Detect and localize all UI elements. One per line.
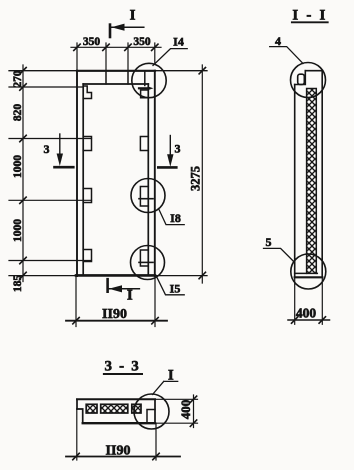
section mark 3 right (169, 136, 171, 164)
svg-text:400: 400 (178, 400, 193, 420)
leader label I (153, 381, 178, 394)
leader label 4 (270, 47, 303, 64)
svg-text:350: 350 (133, 36, 151, 48)
I-I bottom rebate (295, 272, 318, 274)
svg-text:1000: 1000 (12, 155, 24, 178)
section mark I bottom (106, 279, 109, 292)
I-I right edge (321, 71, 323, 278)
slash ticks left chain (20, 68, 26, 279)
detail circle 15 (131, 246, 165, 280)
leader and label 14 (153, 49, 187, 66)
I-I top step (295, 71, 306, 85)
slot in detail 4 (298, 74, 305, 84)
svg-text:3 - 3: 3 - 3 (105, 359, 141, 375)
top rail divider left (105, 71, 107, 84)
right notch 2 (140, 137, 148, 151)
leader and label 15 (157, 278, 184, 295)
I-I bottom edge (295, 276, 323, 278)
top rail bottom line (83, 83, 148, 85)
svg-text:5: 5 (266, 235, 272, 249)
svg-text:820: 820 (12, 104, 24, 122)
400 dim I-I (294, 277, 296, 324)
svg-text:1000: 1000 (12, 219, 24, 242)
ext line x155 (154, 43, 156, 64)
detail circle 5 (291, 254, 326, 289)
title 3-3 underline (104, 373, 142, 375)
3-3 bottom edge (83, 422, 155, 424)
panel bottom edge (extends as extension line both sides) (9, 275, 207, 277)
ext line y87 (9, 86, 83, 88)
slash ticks top dim (74, 44, 158, 50)
3-3 hatch box 3 (132, 404, 141, 413)
svg-text:I5: I5 (170, 282, 181, 296)
3-3 right edge (154, 399, 156, 423)
3-3 left edge (76, 399, 78, 409)
inner left rib line (82, 84, 84, 275)
section mark 3 left (59, 134, 61, 162)
right notch 4 (140, 250, 148, 266)
top rail divider right (127, 71, 129, 84)
svg-text:350: 350 (83, 36, 101, 48)
400 dim 3-3 (155, 398, 198, 400)
left notch 4 (83, 250, 91, 262)
ext line y138.5 (9, 138, 92, 140)
svg-text:I: I (127, 288, 133, 304)
detail circle 14 (132, 63, 166, 97)
core strip borders (307, 89, 317, 274)
3275 dimension line (201, 65, 203, 283)
left notch 1 (83, 86, 91, 99)
1190 dim main view (75, 276, 77, 327)
panel left edge (76, 71, 78, 276)
svg-text:4: 4 (275, 34, 281, 48)
detail circle 18 (131, 179, 165, 213)
left notch 2 (83, 137, 91, 151)
tick in detail circle 15 (139, 261, 153, 263)
svg-text:3: 3 (175, 142, 181, 156)
detail circle I (3-3) (134, 394, 169, 429)
rail divider in detail 14 (144, 71, 146, 86)
left dimension chain line (22, 65, 24, 282)
3-3 hatch box 1 (86, 404, 97, 413)
core strip crosshatch (307, 89, 316, 273)
1190 dim 3-3 (76, 409, 78, 460)
panel right edge (154, 71, 156, 276)
svg-text:I: I (168, 367, 174, 383)
inner right rib line (147, 84, 149, 275)
detail circle 4 (291, 63, 326, 98)
tick in detail circle 14 (139, 87, 149, 89)
svg-text:I8: I8 (170, 211, 181, 225)
I-I top edge (305, 70, 322, 72)
tick in detail circle 18 (139, 198, 153, 200)
3-3 right end inner profile (147, 410, 155, 424)
ext line x77 above panel (76, 43, 78, 71)
leader and label 18 (159, 209, 185, 225)
ext line x128 (127, 43, 129, 71)
ext line x106 (105, 43, 107, 71)
svg-text:I: I (130, 7, 136, 23)
panel top edge (extends as extension line both sides) (9, 70, 207, 72)
left notch 3 (83, 189, 91, 203)
svg-text:270: 270 (12, 70, 24, 88)
svg-text:II90: II90 (102, 307, 127, 322)
leader label 5 (264, 248, 294, 261)
ext line y200.3 (9, 199, 92, 201)
svg-text:3275: 3275 (188, 166, 202, 191)
svg-text:3: 3 (44, 142, 50, 156)
svg-text:185: 185 (12, 275, 24, 293)
3-3 left step (77, 409, 83, 423)
svg-text:I4: I4 (173, 34, 184, 48)
I-I left edge (294, 85, 296, 278)
svg-text:II90: II90 (106, 443, 131, 458)
title I-I underline (292, 21, 328, 23)
svg-text:400: 400 (296, 306, 317, 321)
svg-text:I - I: I - I (292, 7, 327, 23)
ext line y260.5 (9, 260, 92, 262)
3-3 top edge (77, 398, 155, 400)
section mark I top (109, 25, 112, 37)
right notch 1 (141, 90, 149, 98)
right notch 3 (140, 187, 148, 207)
3-3 hatch box 2 (101, 404, 128, 413)
top dimension line 350/350 (71, 46, 161, 48)
